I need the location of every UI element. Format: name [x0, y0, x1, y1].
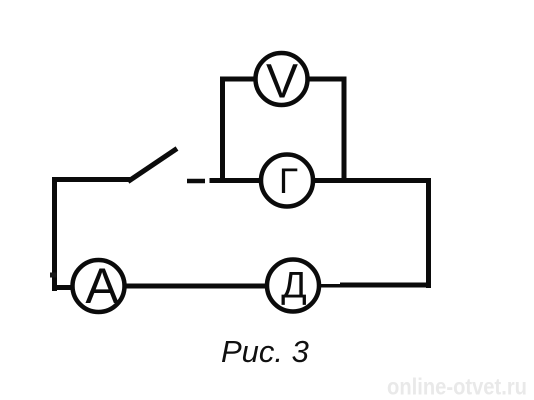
svg-text:Г: Г — [279, 162, 298, 201]
wire: voltmeter branch right horizontal — [308, 77, 347, 82]
wire: bottom-left stub to ammeter — [53, 285, 72, 290]
wire: thick segment Д to right corner — [340, 283, 431, 288]
ammeter A circle — [73, 260, 125, 312]
wire: parallel-loop right vertical — [342, 77, 347, 183]
wire: top-left horizontal from left corner to switch pivot — [52, 177, 130, 182]
motor Д circle — [267, 260, 319, 312]
wire: left outer vertical — [52, 177, 57, 291]
switch S1 right contact dash — [187, 179, 205, 184]
wire: Г to right outer vertical — [314, 178, 431, 183]
svg-text:Рис. 3: Рис. 3 — [221, 334, 309, 369]
wire: switch to galvanometer Г — [210, 178, 261, 183]
wire: bottom from ammeter A to Д — [125, 284, 267, 289]
svg-text:V: V — [266, 56, 298, 109]
junction blob on left vertical — [50, 273, 57, 278]
wire: parallel-loop left vertical — [220, 77, 225, 183]
galvanometer Г circle — [261, 155, 313, 207]
svg-text:A: A — [85, 258, 119, 314]
wire: right outer vertical — [426, 178, 431, 288]
voltmeter V1 circle — [256, 53, 308, 105]
svg-text:online-otvet.ru: online-otvet.ru — [387, 374, 527, 400]
wire: voltmeter branch left horizontal — [220, 77, 255, 82]
svg-text:Д: Д — [281, 264, 306, 306]
wire: thin stub right of Д — [321, 284, 342, 288]
switch S1 blade (open) — [128, 149, 177, 182]
